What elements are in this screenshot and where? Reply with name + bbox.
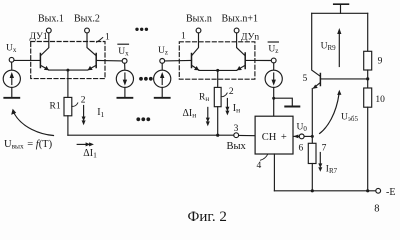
wire R7 to rail: [311, 164, 313, 191]
ground (Uz source): [155, 97, 170, 99]
wire common emitters ДУ1: [49, 69, 88, 71]
resistor R1: [64, 97, 72, 115]
current source U̅x: [116, 63, 133, 97]
terminal Вых.n: [196, 28, 201, 33]
curved arrow Uвых: [11, 109, 53, 136]
dots bottom row: [136, 117, 150, 121]
terminal Вых.2: [85, 28, 90, 33]
junction U0 emitter line: [311, 135, 314, 138]
block CH: [255, 116, 293, 154]
dots top row: [135, 28, 148, 31]
svg-text:U0: U0: [297, 123, 308, 134]
svg-text:2: 2: [229, 87, 234, 97]
terminal 8: [376, 188, 381, 193]
current source Ux: [3, 62, 20, 97]
wire R1 to output bus: [67, 116, 69, 135]
label U̅x: [118, 44, 129, 58]
junction base divider: [366, 77, 369, 80]
junction Rn on bus: [216, 134, 219, 137]
junction R10 line on rail: [366, 189, 369, 192]
arrow ΔIn: [206, 107, 210, 126]
terminal Uz: [160, 59, 165, 64]
ground (U̅x source): [117, 97, 132, 99]
transistor Q2 (right of ДУ1): [87, 33, 96, 70]
svg-text:10: 10: [375, 95, 385, 105]
svg-text:IR7: IR7: [326, 165, 338, 176]
svg-text:1: 1: [105, 33, 110, 43]
leader for 4: [261, 154, 268, 160]
svg-text:4: 4: [257, 161, 262, 171]
transistor T5: [312, 13, 321, 89]
svg-text:Вых.1: Вых.1: [38, 14, 64, 25]
svg-text:ДУn: ДУn: [241, 33, 259, 43]
svg-text:-Е: -Е: [386, 187, 395, 198]
wire Rn to output bus: [217, 107, 219, 136]
terminal U̅x: [122, 59, 127, 64]
wire common emitters ДУn: [199, 69, 237, 71]
svg-text:Вых: Вых: [227, 141, 247, 152]
arrow In: [225, 99, 229, 116]
curved arrow Uэб5: [320, 90, 342, 134]
svg-text:ДУ1: ДУ1: [30, 32, 48, 42]
leader for 2 (Rn): [221, 93, 227, 97]
transistor Q4 (right of ДУn): [237, 33, 246, 70]
wire U0 to emitter line: [304, 135, 312, 137]
junction R7 line on rail: [311, 189, 314, 192]
terminal 3: [234, 133, 239, 138]
svg-text:Uвых = f(T): Uвых = f(T): [4, 139, 53, 151]
wire terminal 3 to CH box: [239, 134, 256, 136]
current source Uz: [154, 63, 171, 97]
wire ground tap: [274, 98, 293, 106]
wire Uz to Q3 base: [165, 59, 192, 62]
svg-text:2: 2: [81, 96, 86, 106]
arrow into CH box (U0): [293, 135, 299, 139]
top rail: [312, 12, 368, 14]
output bus wire: [68, 134, 234, 136]
svg-text:Uz: Uz: [158, 46, 168, 57]
terminal Вых.n+1: [234, 28, 239, 33]
wire Ux to Q1 base: [14, 59, 40, 61]
svg-text:7: 7: [322, 143, 327, 153]
svg-text:ΔIн: ΔIн: [183, 108, 197, 120]
svg-text:Ux: Ux: [118, 47, 129, 58]
junction emitters ДУ1: [66, 69, 69, 72]
svg-text:I1: I1: [97, 107, 104, 119]
svg-text:Фиг. 2: Фиг. 2: [188, 209, 227, 225]
arrow ΔI1: [77, 142, 94, 146]
wire R9 to junction: [367, 70, 369, 88]
arrow UR9: [337, 28, 341, 67]
wire R10 to rail: [367, 107, 369, 191]
svg-text:Вых.n+1: Вых.n+1: [222, 14, 259, 25]
wire emitters ДУ1 to R1: [67, 70, 69, 97]
arrow IR7: [318, 153, 322, 172]
svg-text:Вых.2: Вых.2: [74, 14, 100, 25]
leader for 2 (R1): [72, 103, 78, 106]
dashed box ДУn: [179, 42, 255, 79]
svg-text:Rн: Rн: [199, 93, 209, 104]
arrow I1: [82, 106, 86, 126]
terminal Вых.1: [46, 28, 51, 33]
ground (tap): [285, 106, 299, 108]
resistor R9: [364, 51, 372, 70]
svg-text:6: 6: [299, 144, 304, 154]
leader for 1 (box ДУ1): [97, 38, 103, 43]
terminal U̅z: [271, 58, 276, 63]
junction emitters ДУn: [216, 69, 219, 72]
resistor R7: [308, 143, 316, 163]
svg-text:5: 5: [303, 74, 308, 84]
svg-text:UR9: UR9: [321, 41, 337, 52]
svg-text:Iн: Iн: [233, 103, 240, 115]
svg-text:8: 8: [374, 204, 379, 215]
svg-text:1: 1: [181, 32, 186, 42]
svg-text:R1: R1: [50, 102, 61, 112]
wire CH box bottom to rail: [273, 154, 275, 191]
svg-text:Ux: Ux: [6, 44, 17, 55]
ground (Ux source): [4, 97, 19, 99]
transistor Q3 (left of ДУn): [192, 33, 200, 70]
transistor Q1 (left of ДУ1): [40, 33, 49, 70]
wire Q2 base to U̅x: [96, 59, 122, 62]
svg-text:ΔI1: ΔI1: [83, 148, 97, 160]
wire T5 base to divider: [320, 78, 367, 80]
current source U̅z: [265, 63, 282, 116]
svg-text:СН+: СН+: [262, 132, 287, 143]
wire Q4 base to U̅z: [245, 59, 271, 61]
wire rail to R9: [367, 13, 369, 51]
svg-text:Вых.n: Вых.n: [186, 14, 212, 25]
svg-text:9: 9: [378, 57, 383, 67]
terminal Ux: [9, 57, 14, 62]
wire emitters ДУn to Rn: [217, 70, 219, 87]
resistor R10: [364, 88, 372, 107]
dashed box ДУ1: [31, 42, 105, 79]
power bar +E: [334, 4, 349, 13]
dots middle row: [139, 77, 153, 81]
emitter line x=312.4 (T5 emitter to R7): [311, 89, 313, 144]
resistor Rn: [214, 87, 221, 106]
bottom rail: [274, 190, 375, 192]
junction U̅z source to ground tap: [272, 97, 275, 100]
svg-text:Uz: Uz: [268, 45, 278, 56]
label U̅z: [268, 42, 278, 55]
terminal 6 (U0): [299, 134, 304, 139]
svg-text:Uэб5: Uэб5: [341, 113, 358, 124]
